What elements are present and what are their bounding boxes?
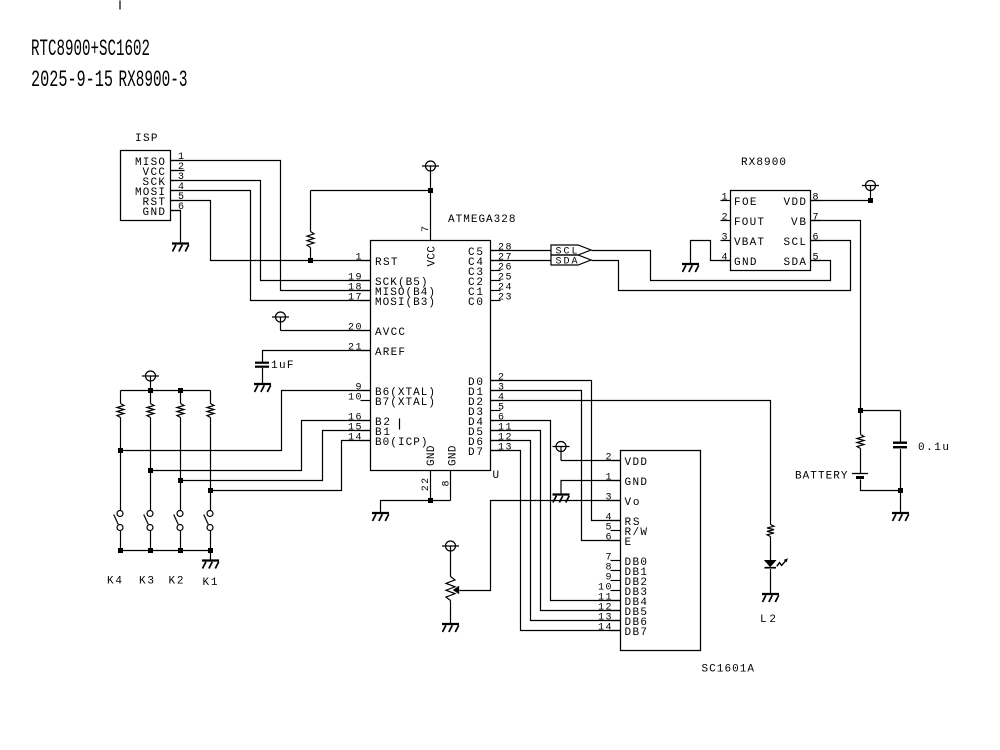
wire ISP SCK to ATMEGA328 SCK(B5) <box>171 181 371 281</box>
resistor K2 pullup <box>177 391 184 512</box>
wire SCL net to RX8900 SDA <box>592 251 831 281</box>
power symbol trimmer <box>442 541 459 577</box>
svg-text:21: 21 <box>348 343 362 354</box>
svg-text:1: 1 <box>605 473 611 484</box>
ground ISP <box>172 244 189 252</box>
svg-text:VB: VB <box>791 217 806 229</box>
ATMEGA328 pin 16 B2 <box>348 413 390 430</box>
RX8900 pin 8 VDD <box>784 193 821 210</box>
wire battery negative to ground node <box>861 480 901 491</box>
svg-text:ISP: ISP <box>135 133 158 145</box>
wire LCD Vo to trimmer wiper <box>460 501 621 591</box>
ISP pin 5 RST <box>143 192 185 209</box>
wire bottom rail to ground <box>210 551 212 561</box>
svg-text:K1: K1 <box>203 577 218 589</box>
wire SDA net to RX8900 SCL <box>592 241 851 291</box>
ATMEGA328 pin 9 B6(XTAL) <box>355 383 435 400</box>
svg-text:4: 4 <box>721 253 727 264</box>
SC1601A pin 13 DB6 <box>598 613 647 630</box>
ISP pin 4 MOSI <box>135 182 184 199</box>
net flag SDA <box>551 255 591 268</box>
SC1601A pin 3 Vo <box>605 493 639 510</box>
svg-text:E: E <box>625 537 632 549</box>
junction VCC rail node <box>428 188 433 193</box>
wire LED to ground <box>770 569 772 594</box>
svg-text:3: 3 <box>605 493 611 504</box>
svg-text:6: 6 <box>605 533 611 544</box>
wire LCD GND to ground <box>561 481 621 495</box>
svg-text:2: 2 <box>605 453 611 464</box>
wire ISP MOSI to ATMEGA328 MOSI(B3) <box>171 191 371 301</box>
svg-text:VCC: VCC <box>427 246 439 267</box>
junction RX8900 VDD node <box>868 198 873 203</box>
wire ground node to ground <box>900 491 902 514</box>
svg-text:2025-9-15: 2025-9-15 <box>31 67 113 94</box>
svg-text:1: 1 <box>355 253 361 264</box>
ATMEGA328 pin 21 AREF <box>348 343 405 360</box>
SC1601A pin 2 VDD <box>605 453 647 470</box>
ATMEGA328 pin 2 D0 <box>468 373 504 390</box>
LCD module SC1601A body <box>621 451 701 651</box>
wire ISP RST to ATMEGA328 RST <box>171 201 371 261</box>
resistor K4 pullup <box>117 391 124 512</box>
ground key matrix <box>202 561 219 569</box>
ATMEGA328 pin 27 C4 <box>468 253 512 270</box>
switch K4 <box>114 511 123 551</box>
junction VB node <box>858 408 863 413</box>
svg-text:22: 22 <box>421 478 432 492</box>
svg-text:RTC8900+SC1602: RTC8900+SC1602 <box>31 36 150 63</box>
svg-text:D7: D7 <box>468 447 483 459</box>
svg-text:SDA: SDA <box>784 257 807 269</box>
svg-text:AREF: AREF <box>375 347 405 359</box>
SC1601A pin 12 DB5 <box>598 603 647 620</box>
ATMEGA328 pin 22 GND bottom <box>421 445 438 500</box>
wire ISP VCC stub <box>171 170 185 172</box>
SC1601A pin 7 DB0 <box>605 553 647 570</box>
svg-text:17: 17 <box>348 293 362 304</box>
wire D4 to LCD DB4 <box>491 421 621 601</box>
svg-text:6: 6 <box>813 233 819 244</box>
junction top rail K3 <box>148 388 153 393</box>
wire D5 to LCD DB5 <box>491 431 621 611</box>
IC RX8900 body <box>731 191 811 271</box>
svg-text:3: 3 <box>721 233 727 244</box>
LED L2 <box>765 558 788 567</box>
resistor R reset pullup <box>307 191 314 261</box>
junction top rail K2 <box>178 388 183 393</box>
svg-text:VDD: VDD <box>784 197 807 209</box>
wire RX8900 GND to ground <box>691 241 731 265</box>
ATMEGA328 pin 26 C3 <box>468 263 512 280</box>
junction RST node <box>308 258 313 263</box>
svg-text:1: 1 <box>721 193 727 204</box>
ATMEGA328 pin 19 SCK(B5) <box>348 273 428 290</box>
wire K4 to B6(XTAL) <box>121 391 371 451</box>
text cursor artifact <box>399 419 401 430</box>
svg-text:AVCC: AVCC <box>375 327 405 339</box>
power symbol VCC rail <box>422 161 439 191</box>
wire RX8900 VDD to power <box>811 200 871 202</box>
junction battery ground node <box>898 488 903 493</box>
ground AREF capacitor <box>254 384 271 392</box>
SC1601A pin 9 DB2 <box>605 573 647 590</box>
ATMEGA328 pin 8 GND bottom <box>441 445 459 500</box>
connector ISP body <box>121 151 171 221</box>
power symbol LCD VDD <box>553 442 570 461</box>
svg-text:GND: GND <box>734 257 757 269</box>
wire D0 to LCD RS <box>491 381 621 521</box>
junction K3 tap <box>148 468 153 473</box>
ATMEGA328 pin 10 B7(XTAL) <box>348 393 435 410</box>
ground LCD GND <box>553 495 570 503</box>
wire key pullup top rail <box>121 390 211 392</box>
svg-text:RX8900: RX8900 <box>741 157 786 169</box>
svg-text:FOUT: FOUT <box>734 217 764 229</box>
SC1601A pin 8 DB1 <box>605 563 647 580</box>
ATMEGA328 pin 17 MOSI(B3) <box>348 293 435 310</box>
ATMEGA328 pin 12 D6 <box>468 433 512 450</box>
svg-text:K2: K2 <box>169 576 184 588</box>
ground LED <box>762 594 779 602</box>
switch K2 <box>174 511 183 551</box>
svg-text:B7(XTAL): B7(XTAL) <box>375 397 435 409</box>
junction bottom rail x120 <box>118 548 123 553</box>
svg-text:GND: GND <box>143 207 166 219</box>
wire C5 to SCL flag <box>491 250 552 252</box>
resistor battery series <box>857 411 864 474</box>
ground RX8900 <box>682 264 699 272</box>
SC1601A pin 5 R/W <box>605 523 647 540</box>
wire ISP MISO to ATMEGA328 MISO(B4) <box>171 161 371 291</box>
IC U ATMEGA328 body <box>371 241 491 471</box>
ISP pin 3 SCK <box>143 172 185 189</box>
wire AVCC <box>281 330 371 332</box>
ATMEGA328 pin 3 D1 <box>468 383 504 400</box>
capacitor 0.1u <box>893 411 907 491</box>
ISP pin 2 VCC <box>143 162 185 179</box>
svg-text:SCL: SCL <box>784 237 807 249</box>
svg-text:1uF: 1uF <box>271 360 294 372</box>
SC1601A pin 11 DB4 <box>598 593 647 610</box>
svg-text:SDA: SDA <box>556 257 578 268</box>
ATMEGA328 pin 14 B0(ICP) <box>348 433 428 450</box>
ATMEGA328 pin 4 D2 <box>468 393 504 410</box>
ISP pin 1 MISO <box>135 152 184 169</box>
svg-text:RX8900-3: RX8900-3 <box>119 67 188 94</box>
RX8900 pin 5 SDA <box>784 253 821 270</box>
svg-text:7: 7 <box>813 213 819 224</box>
wire D1 to LCD E <box>491 391 621 541</box>
svg-text:8: 8 <box>441 480 452 486</box>
svg-text:8: 8 <box>813 193 819 204</box>
wire K1 to B0(ICP) <box>211 441 371 491</box>
switch K3 <box>144 511 153 551</box>
svg-text:B0(ICP): B0(ICP) <box>375 437 428 449</box>
svg-text:14: 14 <box>348 433 362 444</box>
wire K2 to B1 <box>181 431 371 481</box>
ATMEGA328 pin 18 MISO(B4) <box>348 283 435 300</box>
svg-text:20: 20 <box>348 323 362 334</box>
sheet border tick <box>119 1 121 10</box>
junction bottom rail x150 <box>148 548 153 553</box>
svg-text:MOSI(B3): MOSI(B3) <box>375 297 435 309</box>
wire ISP GND to ground <box>171 211 181 244</box>
svg-text:K4: K4 <box>107 576 122 588</box>
svg-text:SC1601A: SC1601A <box>702 664 755 676</box>
svg-text:C0: C0 <box>468 297 483 309</box>
svg-text:RST: RST <box>375 257 398 269</box>
junction K4 tap <box>118 448 123 453</box>
wire RX8900 VB to battery <box>811 221 861 411</box>
wire D6 to LCD DB6 <box>491 441 621 621</box>
power symbol RX8900 VDD <box>862 181 879 201</box>
SC1601A pin 1 GND <box>605 473 647 490</box>
ISP pin 6 GND <box>143 202 185 219</box>
svg-text:FOE: FOE <box>734 197 757 209</box>
ATMEGA328 pin 28 C5 <box>468 243 512 260</box>
wire ATMEGA328 ground net <box>381 501 451 514</box>
switch K1 <box>204 511 213 551</box>
wire LCD VDD <box>561 460 621 462</box>
svg-text:VDD: VDD <box>625 457 648 469</box>
wire AREF to capacitor <box>263 351 371 363</box>
svg-text:ATMEGA328: ATMEGA328 <box>448 214 516 226</box>
ground ATMEGA328 <box>372 513 389 521</box>
wire key bottom rail <box>121 550 211 552</box>
svg-text:Vo: Vo <box>625 497 640 509</box>
power symbol key pullup rail <box>142 371 159 391</box>
wire VB node to capacitor branch <box>861 410 901 412</box>
SC1601A pin 6 E <box>605 533 631 550</box>
wire D2 to LED <box>491 401 771 525</box>
RX8900 pin 2 FOUT <box>721 213 765 230</box>
power symbol AVCC <box>272 312 289 331</box>
ground battery <box>892 513 909 521</box>
svg-text:7: 7 <box>421 226 432 232</box>
RX8900 pin 6 SCL <box>784 233 821 250</box>
junction K2 tap <box>178 478 183 483</box>
svg-text:GND: GND <box>426 445 438 466</box>
svg-text:23: 23 <box>498 293 512 304</box>
ATMEGA328 pin 5 D3 <box>468 403 504 420</box>
svg-text:BATTERY: BATTERY <box>795 471 848 483</box>
ATMEGA328 pin 13 D7 <box>468 443 512 460</box>
RX8900 pin 1 FOE <box>721 193 757 210</box>
resistor LED series <box>767 525 774 562</box>
svg-text:GND: GND <box>625 477 648 489</box>
RX8900 pin 3 VBAT <box>721 233 765 250</box>
ATMEGA328 pin 24 C1 <box>468 283 512 300</box>
wire D7 to LCD DB7 <box>491 451 621 631</box>
svg-text:DB7: DB7 <box>625 627 648 639</box>
variable resistor contrast trimmer <box>446 577 459 625</box>
resistor K3 pullup <box>147 391 154 512</box>
wire VCC rail to ATMEGA328 pin 7 <box>311 190 431 192</box>
ATMEGA328 pin 6 D4 <box>468 413 504 430</box>
SC1601A pin 14 DB7 <box>598 623 647 640</box>
resistor K1 pullup <box>207 391 214 512</box>
RX8900 pin 7 VB <box>791 213 821 230</box>
svg-text:10: 10 <box>348 393 362 404</box>
battery BATTERY <box>852 474 868 478</box>
svg-text:5: 5 <box>813 253 819 264</box>
ATMEGA328 pin 20 AVCC <box>348 323 405 340</box>
svg-text:K3: K3 <box>139 576 154 588</box>
net flag SCL <box>551 245 591 258</box>
wire K3 to B2 <box>151 421 371 471</box>
ATMEGA328 pin 23 C0 <box>468 293 512 310</box>
junction K1 tap <box>208 488 213 493</box>
ATMEGA328 pin 15 B1 <box>348 423 390 440</box>
svg-text:GND: GND <box>448 445 460 466</box>
svg-text:VBAT: VBAT <box>734 237 764 249</box>
RX8900 pin 4 GND <box>721 253 757 270</box>
junction bottom rail x180 <box>178 548 183 553</box>
svg-text:U: U <box>493 470 500 482</box>
junction bottom rail x210 <box>208 548 213 553</box>
ATMEGA328 pin 11 D5 <box>468 423 512 440</box>
svg-text:2: 2 <box>721 213 727 224</box>
ATMEGA328 pin 25 C2 <box>468 273 512 290</box>
ground trimmer <box>442 624 459 632</box>
ATMEGA328 pin 7 VCC top <box>421 191 438 267</box>
SC1601A pin 10 DB3 <box>598 583 647 600</box>
junction ATMEGA328 ground net <box>428 498 433 503</box>
wire C4 to SDA flag <box>491 260 552 262</box>
SC1601A pin 4 RS <box>605 513 639 530</box>
ATMEGA328 pin 1 RST <box>355 253 397 270</box>
svg-text:14: 14 <box>598 623 612 634</box>
capacitor 1uF <box>255 363 269 384</box>
svg-text:13: 13 <box>498 443 512 454</box>
svg-text:0.1u: 0.1u <box>918 442 949 454</box>
